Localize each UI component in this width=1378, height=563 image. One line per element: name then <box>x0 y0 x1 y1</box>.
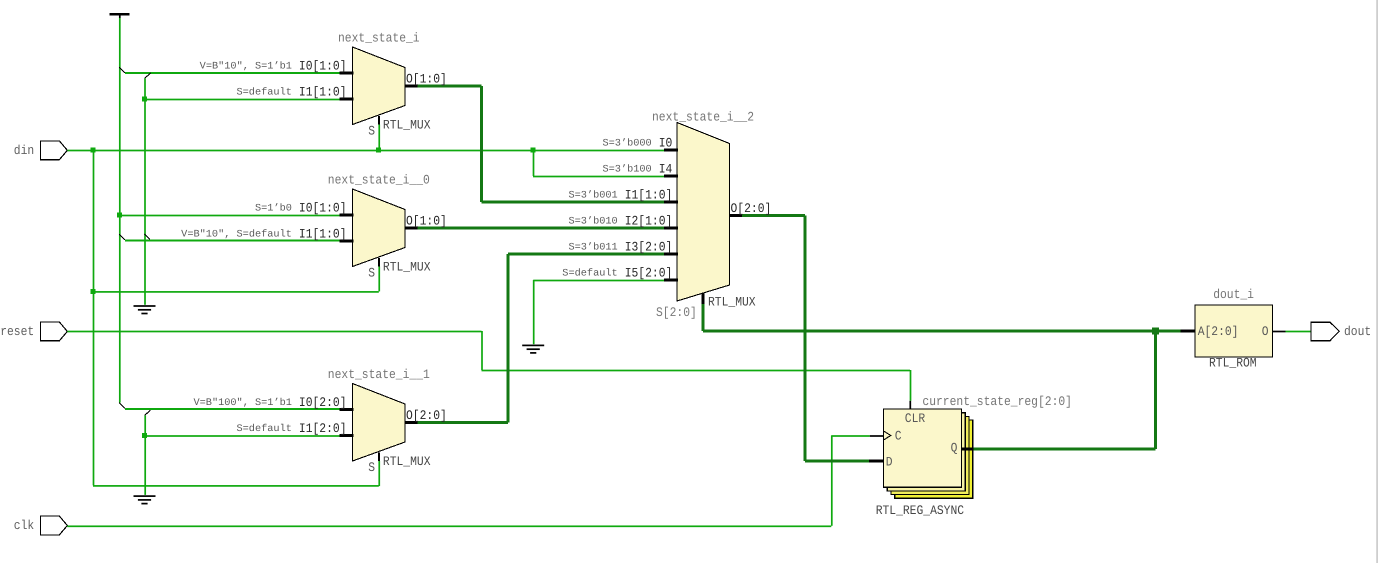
mux next_state_i__2 pin I0 stub <box>664 149 678 152</box>
svg-text:S=3’b011: S=3’b011 <box>569 242 618 254</box>
wire reset jog vertical <box>481 331 483 370</box>
mux next_state_i body <box>353 47 406 125</box>
wire next_state_i__1 I1 (S=default) <box>145 435 340 437</box>
svg-text:D: D <box>886 455 893 470</box>
wire next_state_i__2 S vertical <box>702 304 705 331</box>
mux next_state_i__1 pin I0 label <box>194 395 347 410</box>
mux next_state_i__1 pin I1 label <box>237 421 347 436</box>
mux next_state_i__1 body <box>353 384 406 462</box>
svg-text:I0[2:0]: I0[2:0] <box>299 395 347 410</box>
svg-text:dout: dout <box>1344 324 1371 339</box>
svg-text:RTL_MUX: RTL_MUX <box>383 260 431 275</box>
mux next_state_i__2 pin I5[2:0] stub <box>664 279 678 282</box>
mux next_state_i__2 pin I2[1:0] stub <box>664 227 678 230</box>
mux next_state_i__0 pin S stub <box>378 258 380 267</box>
svg-text:V=B″10″, S=1’b1: V=B″10″, S=1’b1 <box>200 61 292 73</box>
mux next_state_i__2 body <box>677 123 730 302</box>
svg-text:S: S <box>368 460 375 475</box>
rom pin O stub <box>1272 331 1285 333</box>
wire to next_state_i__2 I3 <box>508 253 665 256</box>
mux next_state_i__0 pin I1 stub <box>340 240 354 243</box>
mux next_state_i pin I1 label <box>237 84 347 99</box>
mux next_state_i__0 pin I1 label <box>181 226 346 241</box>
svg-text:S=default: S=default <box>237 423 292 435</box>
mux next_state_i pin I0 stub <box>340 72 354 75</box>
wire const net vertical x=144 upper <box>144 78 146 304</box>
wire next_state_i__2 I5 horizontal <box>533 280 665 282</box>
svg-text:next_state_i__1: next_state_i__1 <box>328 367 430 382</box>
mux next_state_i__2 pin I0 label <box>603 135 673 150</box>
mux next_state_i pin I0 label <box>200 58 347 73</box>
svg-text:S=3’b001: S=3’b001 <box>569 190 618 202</box>
power supply symbol (VCC tee) <box>110 13 130 18</box>
junction on next_state_i I1 wire <box>142 97 147 102</box>
mux next_state_i__2 pin I5[2:0] label <box>562 265 672 280</box>
register current_state_reg body <box>884 409 962 487</box>
junction din / vertical x=93 <box>91 148 96 153</box>
mux next_state_i__2 pin I4 label <box>603 161 673 176</box>
panel border right edge <box>1376 0 1378 563</box>
svg-text:O[2:0]: O[2:0] <box>406 408 447 423</box>
bus ripper from x=144 vertical to I1 wire <box>145 234 150 239</box>
svg-text:CLR: CLR <box>905 411 926 426</box>
wire reset vertical to CLR <box>910 370 912 401</box>
wire register Q vertical <box>1154 331 1157 449</box>
junction din / I4 branch <box>531 148 536 153</box>
mux next_state_i__0 body <box>353 189 406 267</box>
wire next_state_i__0 S horizontal <box>93 291 379 293</box>
svg-text:C: C <box>895 428 902 443</box>
svg-text:V=B″100″, S=1’b1: V=B″100″, S=1’b1 <box>194 397 292 409</box>
wire next_state_i__1 S vertical <box>378 461 380 486</box>
mux next_state_i pin O stub <box>405 85 417 88</box>
mux next_state_i__2 pin I1[1:0] stub <box>664 201 678 204</box>
wire I4 branch horizontal <box>533 176 665 178</box>
wire next_state_i__1 I0 (V=B"100") <box>125 408 340 410</box>
svg-text:S=1’b0: S=1’b0 <box>255 203 292 215</box>
register pin CLR stub <box>909 401 911 409</box>
wire reset horizontal from port <box>67 331 481 333</box>
svg-text:O[1:0]: O[1:0] <box>406 214 447 229</box>
rom dout_i body <box>1195 305 1272 357</box>
input port din <box>14 141 68 160</box>
svg-text:I0[1:0]: I0[1:0] <box>299 200 347 215</box>
wire to next_state_i__2 I1 <box>481 201 665 204</box>
wire rom O to dout port <box>1286 331 1312 333</box>
wire I4 branch vertical <box>533 150 535 176</box>
mux next_state_i__2 pin I3[2:0] label <box>569 239 673 254</box>
svg-text:O[2:0]: O[2:0] <box>731 201 772 216</box>
svg-text:O: O <box>1262 324 1269 339</box>
register current_state_reg stack layer 1 <box>887 413 965 491</box>
svg-text:I1[1:0]: I1[1:0] <box>299 226 347 241</box>
wire next_state to register D vertical <box>804 216 807 462</box>
svg-text:RTL_ROM: RTL_ROM <box>1209 356 1257 371</box>
wire current_state horizontal to ROM <box>703 330 1181 333</box>
svg-text:A[2:0]: A[2:0] <box>1198 324 1239 339</box>
ground G2 below const x=144 lower <box>134 495 156 504</box>
svg-text:S=3’b010: S=3’b010 <box>569 216 618 228</box>
svg-text:S=default: S=default <box>562 268 617 280</box>
register current_state_reg stack layer 2 <box>891 416 969 494</box>
ground G3 below I5 <box>522 345 544 354</box>
bus ripper from I0 wire to x=144 vertical lower <box>145 410 151 415</box>
svg-text:S=3’b100: S=3’b100 <box>603 164 652 176</box>
wire next_state_i__1 O horizontal <box>417 421 508 424</box>
bus ripper to next_state_i I0 wire <box>119 67 125 73</box>
bus ripper to next_state_i__0 I1 wire <box>119 234 125 240</box>
svg-text:I0[1:0]: I0[1:0] <box>299 58 347 73</box>
svg-text:RTL_MUX: RTL_MUX <box>708 295 756 310</box>
mux next_state_i__2 pin I1[1:0] label <box>569 187 673 202</box>
svg-text:RTL_REG_ASYNC: RTL_REG_ASYNC <box>876 503 965 518</box>
wire next_state_i__2 O horizontal <box>742 214 805 217</box>
mux next_state_i__1 pin S stub <box>378 452 380 461</box>
wire next_state_i__2 I5 vertical <box>533 280 535 344</box>
svg-text:S: S <box>368 266 375 281</box>
bus ripper from I0 wire to x=144 vertical <box>145 73 151 78</box>
mux next_state_i__2 pin I2[1:0] label <box>569 213 673 228</box>
bus ripper corner into next_state_i__1 I0 wire <box>119 403 125 409</box>
svg-text:I0: I0 <box>659 135 673 150</box>
wire next_state_i__1 O vertical <box>507 254 510 423</box>
wire next_state_i__1 S horizontal <box>93 485 379 487</box>
register current_state_reg stack layer 3 <box>895 420 973 498</box>
svg-text:reset: reset <box>0 324 34 339</box>
junction on next_state_i__0 I0 wire <box>117 213 122 218</box>
svg-text:next_state_i: next_state_i <box>338 31 420 46</box>
register pin Q stub <box>962 448 974 451</box>
svg-text:din: din <box>14 143 34 158</box>
svg-text:S=3’b000: S=3’b000 <box>603 138 652 150</box>
junction din / next_state_i__0 S wire <box>91 289 96 294</box>
wire reset horizontal to register <box>482 370 911 372</box>
mux next_state_i__0 pin O stub <box>405 227 417 230</box>
junction on next_state_i__1 I1 wire <box>142 433 147 438</box>
wire next_state_i O horizontal <box>417 85 481 88</box>
svg-text:current_state_reg[2:0]: current_state_reg[2:0] <box>922 394 1072 409</box>
svg-text:dout_i: dout_i <box>1213 287 1254 302</box>
svg-text:Q: Q <box>951 441 958 456</box>
svg-text:I2[1:0]: I2[1:0] <box>625 213 673 228</box>
wire register Q horizontal <box>973 448 1155 451</box>
wire next_state_i O vertical <box>480 86 483 202</box>
wire clk vertical <box>831 436 833 526</box>
mux next_state_i__2 pin S stub <box>702 293 705 304</box>
mux next_state_i pin I1 stub <box>340 98 354 101</box>
svg-text:I3[2:0]: I3[2:0] <box>625 239 673 254</box>
wire clk horizontal to C pin <box>831 435 870 437</box>
wire next_state_i__0 I0 (S=1'b0) <box>119 215 339 217</box>
svg-text:I1[2:0]: I1[2:0] <box>299 421 347 436</box>
wire next_state_i S vertical <box>378 125 380 151</box>
svg-text:S: S <box>368 124 375 139</box>
register pin C clock triangle <box>884 431 891 440</box>
register pin C stub <box>870 435 884 437</box>
wire to register D horizontal <box>805 460 869 463</box>
wire const net vertical x=119 <box>119 18 121 403</box>
mux next_state_i__2 pin I4 stub <box>664 175 678 178</box>
wire din vertical x=93 <box>93 150 95 485</box>
wire next_state_i__0 O to I2 <box>417 227 665 230</box>
output port dout <box>1311 322 1371 341</box>
svg-text:I5[2:0]: I5[2:0] <box>625 265 673 280</box>
svg-text:RTL_MUX: RTL_MUX <box>383 454 431 469</box>
mux next_state_i__1 pin I0 stub <box>340 408 354 411</box>
svg-text:next_state_i__2: next_state_i__2 <box>652 109 754 124</box>
wire const net vertical x=144 lower <box>144 415 146 495</box>
wire next_state_i__0 I1 (V=B"10") <box>125 240 340 242</box>
mux next_state_i__2 pin O stub <box>730 214 743 217</box>
svg-text:I1[1:0]: I1[1:0] <box>625 187 673 202</box>
junction din / next_state_i S <box>376 148 381 153</box>
svg-text:O[1:0]: O[1:0] <box>406 72 447 87</box>
svg-text:next_state_i__0: next_state_i__0 <box>328 173 430 188</box>
svg-text:V=B″10″, S=default: V=B″10″, S=default <box>181 229 292 241</box>
junction current_state / register Q <box>1152 328 1159 335</box>
wire clk horizontal <box>67 525 831 527</box>
svg-text:S[2:0]: S[2:0] <box>656 305 697 320</box>
svg-text:S=default: S=default <box>237 87 292 99</box>
input port clk <box>14 516 68 535</box>
mux next_state_i__0 pin I0 label <box>255 200 347 215</box>
register pin D stub <box>869 460 884 463</box>
svg-text:clk: clk <box>14 518 35 533</box>
mux next_state_i__1 pin I1 stub <box>340 434 354 437</box>
mux next_state_i__1 pin O stub <box>405 421 417 424</box>
mux next_state_i__0 pin I0 stub <box>340 214 354 217</box>
svg-text:I1[1:0]: I1[1:0] <box>299 84 347 99</box>
mux next_state_i pin S stub <box>378 116 380 125</box>
input port reset <box>0 322 67 341</box>
wire next_state_i I0 (V=B"10") <box>125 72 340 74</box>
wire next_state_i__0 S vertical <box>378 267 380 292</box>
rom pin A stub <box>1181 330 1196 333</box>
ground G1 below const x=144 upper <box>134 305 156 314</box>
svg-text:RTL_MUX: RTL_MUX <box>383 118 431 133</box>
svg-text:I4: I4 <box>659 161 673 176</box>
mux next_state_i__2 pin I3[2:0] stub <box>664 253 678 256</box>
wire next_state_i I1 (S=default) <box>145 99 340 101</box>
wire din horizontal <box>67 150 665 152</box>
